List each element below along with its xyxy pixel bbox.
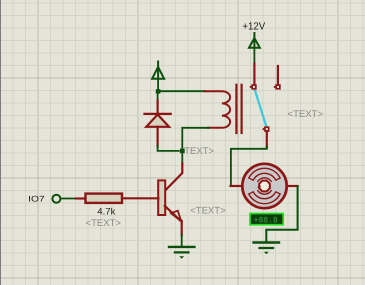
motor M1 body bbox=[242, 164, 286, 208]
resistor 4.7k lead left bbox=[76, 197, 85, 199]
terminal IO7 bbox=[52, 195, 60, 203]
svg-text:IO7: IO7 bbox=[28, 195, 45, 204]
relay pin NO (bottom) bbox=[264, 126, 269, 131]
wire IO7 to resistor bbox=[61, 198, 77, 200]
motor M1 lead left bbox=[231, 185, 243, 187]
relay core bars bbox=[235, 85, 237, 133]
wire junction to relay coil top bbox=[158, 90, 204, 92]
svg-text:<TEXT>: <TEXT> bbox=[86, 218, 122, 229]
wire emitter down bbox=[181, 221, 183, 235]
svg-text:<TEXT>: <TEXT> bbox=[288, 109, 324, 120]
power symbol +12V bbox=[253, 33, 255, 48]
relay pin common bbox=[251, 84, 256, 89]
svg-text:<TEXT>: <TEXT> bbox=[190, 206, 226, 217]
motor M1 commutator band top bbox=[249, 168, 280, 180]
wire relay NO pin to motor left bbox=[266, 132, 268, 148]
wire power stem to junction bbox=[157, 79, 159, 92]
svg-text:+12V: +12V bbox=[242, 21, 265, 32]
transistor Q1 base bar bbox=[158, 180, 165, 215]
motor M1 hub bbox=[258, 180, 271, 193]
display readout +88.8 bbox=[250, 214, 283, 225]
resistor 4.7k lead right / wire to base bbox=[122, 197, 158, 199]
power symbol (unnamed) above diode bbox=[157, 62, 159, 79]
node junction collector bbox=[180, 149, 185, 154]
wire collector junction down bbox=[181, 151, 183, 164]
node junction top (diode/coil/+V) bbox=[156, 89, 161, 93]
relay pin NC bbox=[275, 84, 280, 89]
wire motor right to ground bbox=[266, 186, 297, 241]
resistor 4.7k body bbox=[86, 194, 123, 203]
motor M1 inner arc top bbox=[258, 178, 271, 181]
motor M1 hub tick bbox=[257, 185, 261, 188]
relay switch arm (animated state, cyan) bbox=[255, 90, 267, 126]
motor M1 inner arc bottom bbox=[258, 191, 271, 194]
relay RL1 coil bbox=[205, 91, 231, 128]
wire junction down to diode cathode bbox=[157, 91, 159, 101]
wire +12V to relay common pin bbox=[253, 48, 255, 64]
transistor Q1 emitter arrow bbox=[171, 211, 181, 222]
transistor Q1 emitter lead bbox=[165, 206, 182, 222]
ground (motor) bbox=[254, 241, 279, 243]
wire diode anode to collector junction bbox=[158, 146, 182, 151]
svg-text:+88.8: +88.8 bbox=[254, 216, 278, 226]
wire relay coil bottom to collector junction bbox=[182, 128, 209, 150]
svg-text:4.7k: 4.7k bbox=[97, 207, 115, 217]
motor M1 lead right bbox=[286, 185, 297, 187]
diode D1 (flyback) bbox=[145, 114, 171, 147]
transistor Q1 collector lead bbox=[165, 164, 183, 191]
motor M1 commutator band bottom bbox=[249, 192, 280, 204]
relay NC stub pin bbox=[277, 66, 279, 84]
ground (emitter) bbox=[169, 246, 194, 248]
